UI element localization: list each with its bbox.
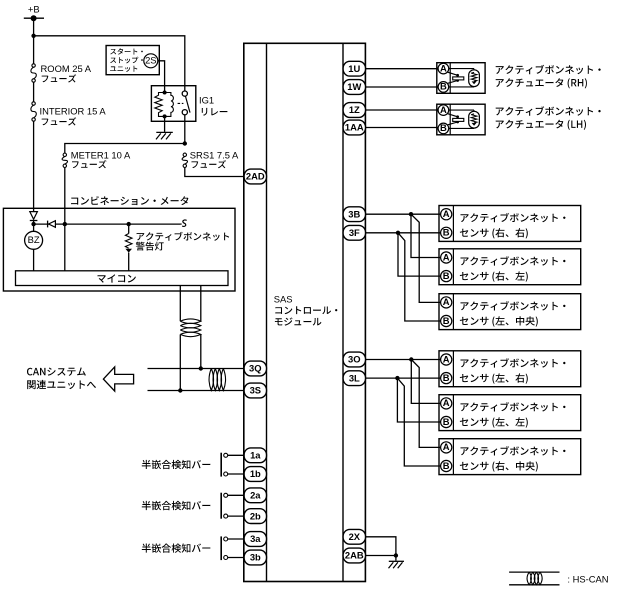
fuse METER1 10A	[62, 153, 67, 167]
label SRS1 7.5 A fuse	[190, 150, 239, 169]
wire 3L to sensor bus B	[365, 377, 440, 379]
wire SRS1 fuse to pin 2AD	[185, 168, 245, 177]
svg-text:3F: 3F	[349, 227, 360, 238]
wire bar 2 to module	[228, 495, 245, 516]
sensor active bonnet (left-right)	[439, 351, 581, 387]
twisted pair (horizontal run)	[209, 369, 226, 391]
ground below IG1 relay	[156, 132, 173, 139]
label SAS control module	[274, 293, 338, 325]
svg-text:3a: 3a	[250, 533, 261, 544]
wire relay coil to ground	[164, 116, 166, 131]
svg-text:1W: 1W	[347, 81, 361, 92]
svg-text:2AB: 2AB	[345, 550, 364, 561]
wire CAN bus to 3S	[148, 390, 245, 392]
svg-text:3O: 3O	[348, 354, 361, 365]
label CAN system related units	[27, 368, 96, 390]
svg-text:A: A	[443, 208, 450, 219]
wire 3O to sensor bus A	[365, 359, 440, 361]
label METER1 10 A fuse	[71, 150, 131, 169]
wire CAN-H from microcomputer	[200, 286, 202, 369]
warning lamp wire upper	[128, 224, 130, 233]
relay coil nodes	[163, 91, 167, 119]
svg-text:A: A	[440, 104, 447, 115]
svg-text:1a: 1a	[250, 450, 261, 461]
wire 3F branch to sensor2 B	[398, 233, 441, 276]
wire 1AA to actuator LH B	[365, 127, 438, 129]
wire CAN-L from microcomputer	[179, 286, 181, 391]
diode D1 (series, pointing down)	[30, 212, 38, 221]
svg-text:SAS: SAS	[274, 293, 293, 304]
junction bus / warning lamp branch	[127, 222, 131, 226]
junction 3F bus	[396, 231, 400, 235]
relay IG1 switch contacts	[178, 91, 190, 115]
wire relay switch to fuse rail	[184, 115, 186, 144]
connector curl end of bus	[181, 220, 187, 226]
pin 1Z	[343, 103, 365, 118]
combination meter box	[3, 208, 235, 291]
svg-text:3S: 3S	[250, 385, 261, 396]
svg-text:2S: 2S	[145, 55, 156, 66]
svg-text:1b: 1b	[250, 468, 261, 479]
connector 2S	[144, 54, 158, 68]
sensor active bonnet (right-center)	[439, 439, 581, 475]
wire CAN bus to 3Q	[148, 368, 245, 370]
label INTERIOR 15 A fuse	[40, 106, 107, 126]
wire METER1 fuse into meter	[64, 168, 66, 271]
wire 2AB to ground	[365, 555, 396, 557]
pin 1a	[244, 448, 266, 463]
svg-text:+B: +B	[28, 3, 40, 14]
label active bonnet actuator (LH)	[496, 106, 601, 130]
wire BZ to microcomputer	[33, 249, 35, 270]
actuator active bonnet RH	[437, 62, 485, 93]
microcomputer box	[16, 271, 229, 286]
label active bonnet actuator (RH)	[496, 65, 601, 89]
svg-text:METER1 10 A: METER1 10 A	[71, 150, 131, 161]
SAS control module U1 box	[244, 43, 366, 581]
diode D2 (inline, pointing left)	[48, 221, 56, 228]
pin 3B	[343, 207, 365, 222]
svg-text:2X: 2X	[349, 531, 361, 542]
svg-text:: HS-CAN: : HS-CAN	[567, 573, 608, 584]
svg-text:B: B	[443, 270, 450, 281]
pin 3F	[343, 225, 365, 240]
sensor active bonnet (right-right)	[439, 206, 581, 242]
label IG1 relay	[199, 95, 227, 116]
buzzer BZ	[25, 231, 43, 249]
svg-text:2a: 2a	[250, 490, 261, 501]
label half-engagement detection bar 3	[142, 543, 211, 552]
relay coil resistor branch	[155, 93, 165, 117]
svg-text:SRS1 7.5 A: SRS1 7.5 A	[190, 150, 239, 161]
pin 3O	[343, 352, 365, 367]
label active bonnet sensor (left-left)	[460, 402, 566, 428]
wire INTERIOR fuse to combination meter	[33, 121, 35, 212]
relay IG1 box	[151, 86, 195, 122]
half-engagement detection bar 2	[221, 493, 228, 519]
svg-text:B: B	[443, 315, 450, 326]
svg-text:3L: 3L	[349, 372, 360, 383]
junction 3O bus	[409, 357, 413, 361]
label active bonnet sensor (right-center)	[460, 446, 566, 472]
wire +B to IG1 relay switch	[34, 36, 185, 91]
lamp active bonnet warning light	[125, 234, 132, 253]
pin 3S	[244, 383, 266, 398]
junction 2AB ground	[394, 553, 398, 557]
wire 3B branch to sensor2 A	[411, 214, 441, 257]
pin 1U	[343, 61, 365, 76]
wire 3O branch to sensor6 A	[411, 360, 440, 448]
junction fuse rail	[183, 141, 187, 145]
svg-text:INTERIOR 15 A: INTERIOR 15 A	[40, 106, 107, 117]
pin 1b	[244, 467, 266, 482]
junction 3L bus	[395, 376, 399, 380]
wire 1U to actuator RH A	[365, 68, 438, 70]
actuator active bonnet LH	[437, 104, 485, 135]
label ROOM 25 A fuse	[41, 63, 92, 83]
label start-stop unit	[110, 48, 143, 72]
ground module	[389, 561, 405, 568]
sensor active bonnet (right-left)	[439, 249, 581, 285]
warning lamp wire lower	[128, 253, 130, 271]
legend HS-CAN twisted pair	[509, 572, 559, 585]
wire diode to BZ	[33, 221, 35, 232]
pin 3Q	[244, 361, 266, 376]
twisted pair (vertical run)	[180, 319, 201, 337]
wire 3B branch to sensor3 A	[411, 214, 441, 302]
label active bonnet sensor (right-left)	[460, 256, 566, 282]
wire between fuses	[33, 82, 35, 102]
pin 2b	[244, 509, 266, 524]
svg-text:1AA: 1AA	[345, 122, 364, 133]
svg-text:2b: 2b	[250, 510, 261, 521]
svg-text:B: B	[440, 81, 447, 92]
pin 2a	[244, 488, 266, 503]
svg-text:B: B	[440, 122, 447, 133]
pin 1AA	[343, 120, 365, 135]
wire meter horizontal bus	[34, 223, 181, 225]
pin 3L	[343, 371, 365, 386]
fuse INTERIOR 15A	[31, 102, 36, 121]
wire 2S to IG1 relay coil	[158, 61, 165, 93]
svg-text:A: A	[443, 397, 450, 408]
svg-text:3Q: 3Q	[249, 363, 262, 374]
wire 3L branch to sensor6 B	[397, 378, 440, 466]
pin 2AB	[343, 548, 365, 563]
start-stop unit box	[106, 46, 159, 75]
svg-text:3b: 3b	[250, 552, 261, 563]
label microcomputer	[98, 274, 136, 283]
svg-text:B: B	[443, 416, 450, 427]
wire +B main vertical	[33, 18, 35, 64]
label active bonnet sensor (right-right)	[460, 213, 566, 239]
fuse SRS1 7.5A	[182, 153, 187, 167]
wire 3L branch to sensor5 B	[397, 378, 440, 422]
label active bonnet sensor (left-center)	[460, 301, 566, 327]
arrow to CAN system units	[103, 367, 133, 391]
junction 3B bus	[409, 212, 413, 216]
half-engagement detection bar 3	[221, 536, 228, 560]
svg-text:ROOM 25 A: ROOM 25 A	[41, 63, 92, 74]
svg-text:2AD: 2AD	[246, 171, 265, 182]
pin 3b	[244, 550, 266, 565]
pin 3a	[244, 532, 266, 547]
label active bonnet sensor (left-right)	[460, 358, 566, 384]
fuse ROOM 25A	[31, 64, 36, 82]
pin 1W	[343, 80, 365, 95]
junction meter bus left	[31, 222, 35, 226]
wire 1W to actuator RH B	[365, 86, 438, 88]
label active bonnet warning light	[136, 232, 229, 251]
wire fuse rail horizontal	[65, 144, 185, 153]
svg-text:BZ: BZ	[28, 234, 40, 245]
wire 3O branch to sensor5 A	[411, 360, 440, 404]
relay coil inductor branch	[165, 93, 174, 117]
label half-engagement detection bar 1	[142, 460, 211, 469]
svg-text:B: B	[443, 227, 450, 238]
svg-text:1Z: 1Z	[349, 104, 360, 115]
sensor active bonnet (left-center)	[439, 294, 581, 330]
node +B terminal	[24, 15, 44, 21]
svg-text:3B: 3B	[348, 208, 360, 219]
wire 2X to ground	[365, 537, 396, 561]
wire 1Z to actuator LH A	[365, 109, 438, 111]
junction bus / METER1 branch	[63, 222, 67, 226]
wire 3F branch to sensor3 B	[398, 233, 441, 321]
wire bar 3 to module	[228, 539, 245, 558]
label combination meter	[71, 196, 188, 205]
pin 2AD	[244, 169, 266, 184]
wire bar 1 to module	[228, 455, 245, 474]
sensor active bonnet (left-left)	[439, 395, 581, 431]
svg-text:A: A	[440, 62, 447, 73]
half-engagement detection bar 1	[221, 453, 228, 477]
svg-text:IG1: IG1	[199, 95, 214, 106]
junction CAN-H	[199, 366, 203, 370]
wire 3B to sensor bus A	[365, 213, 440, 215]
wire 3F to sensor bus B	[365, 232, 440, 234]
svg-text:B: B	[443, 372, 450, 383]
pin 2X	[343, 529, 365, 544]
junction CAN-L	[178, 388, 182, 392]
svg-text:B: B	[443, 460, 450, 471]
svg-text:1U: 1U	[348, 63, 360, 74]
junction +B branch	[31, 34, 35, 38]
svg-text:A: A	[443, 296, 450, 307]
svg-text:A: A	[443, 441, 450, 452]
svg-text:A: A	[443, 353, 450, 364]
label half-engagement detection bar 2	[142, 501, 211, 510]
svg-text:A: A	[443, 251, 450, 262]
